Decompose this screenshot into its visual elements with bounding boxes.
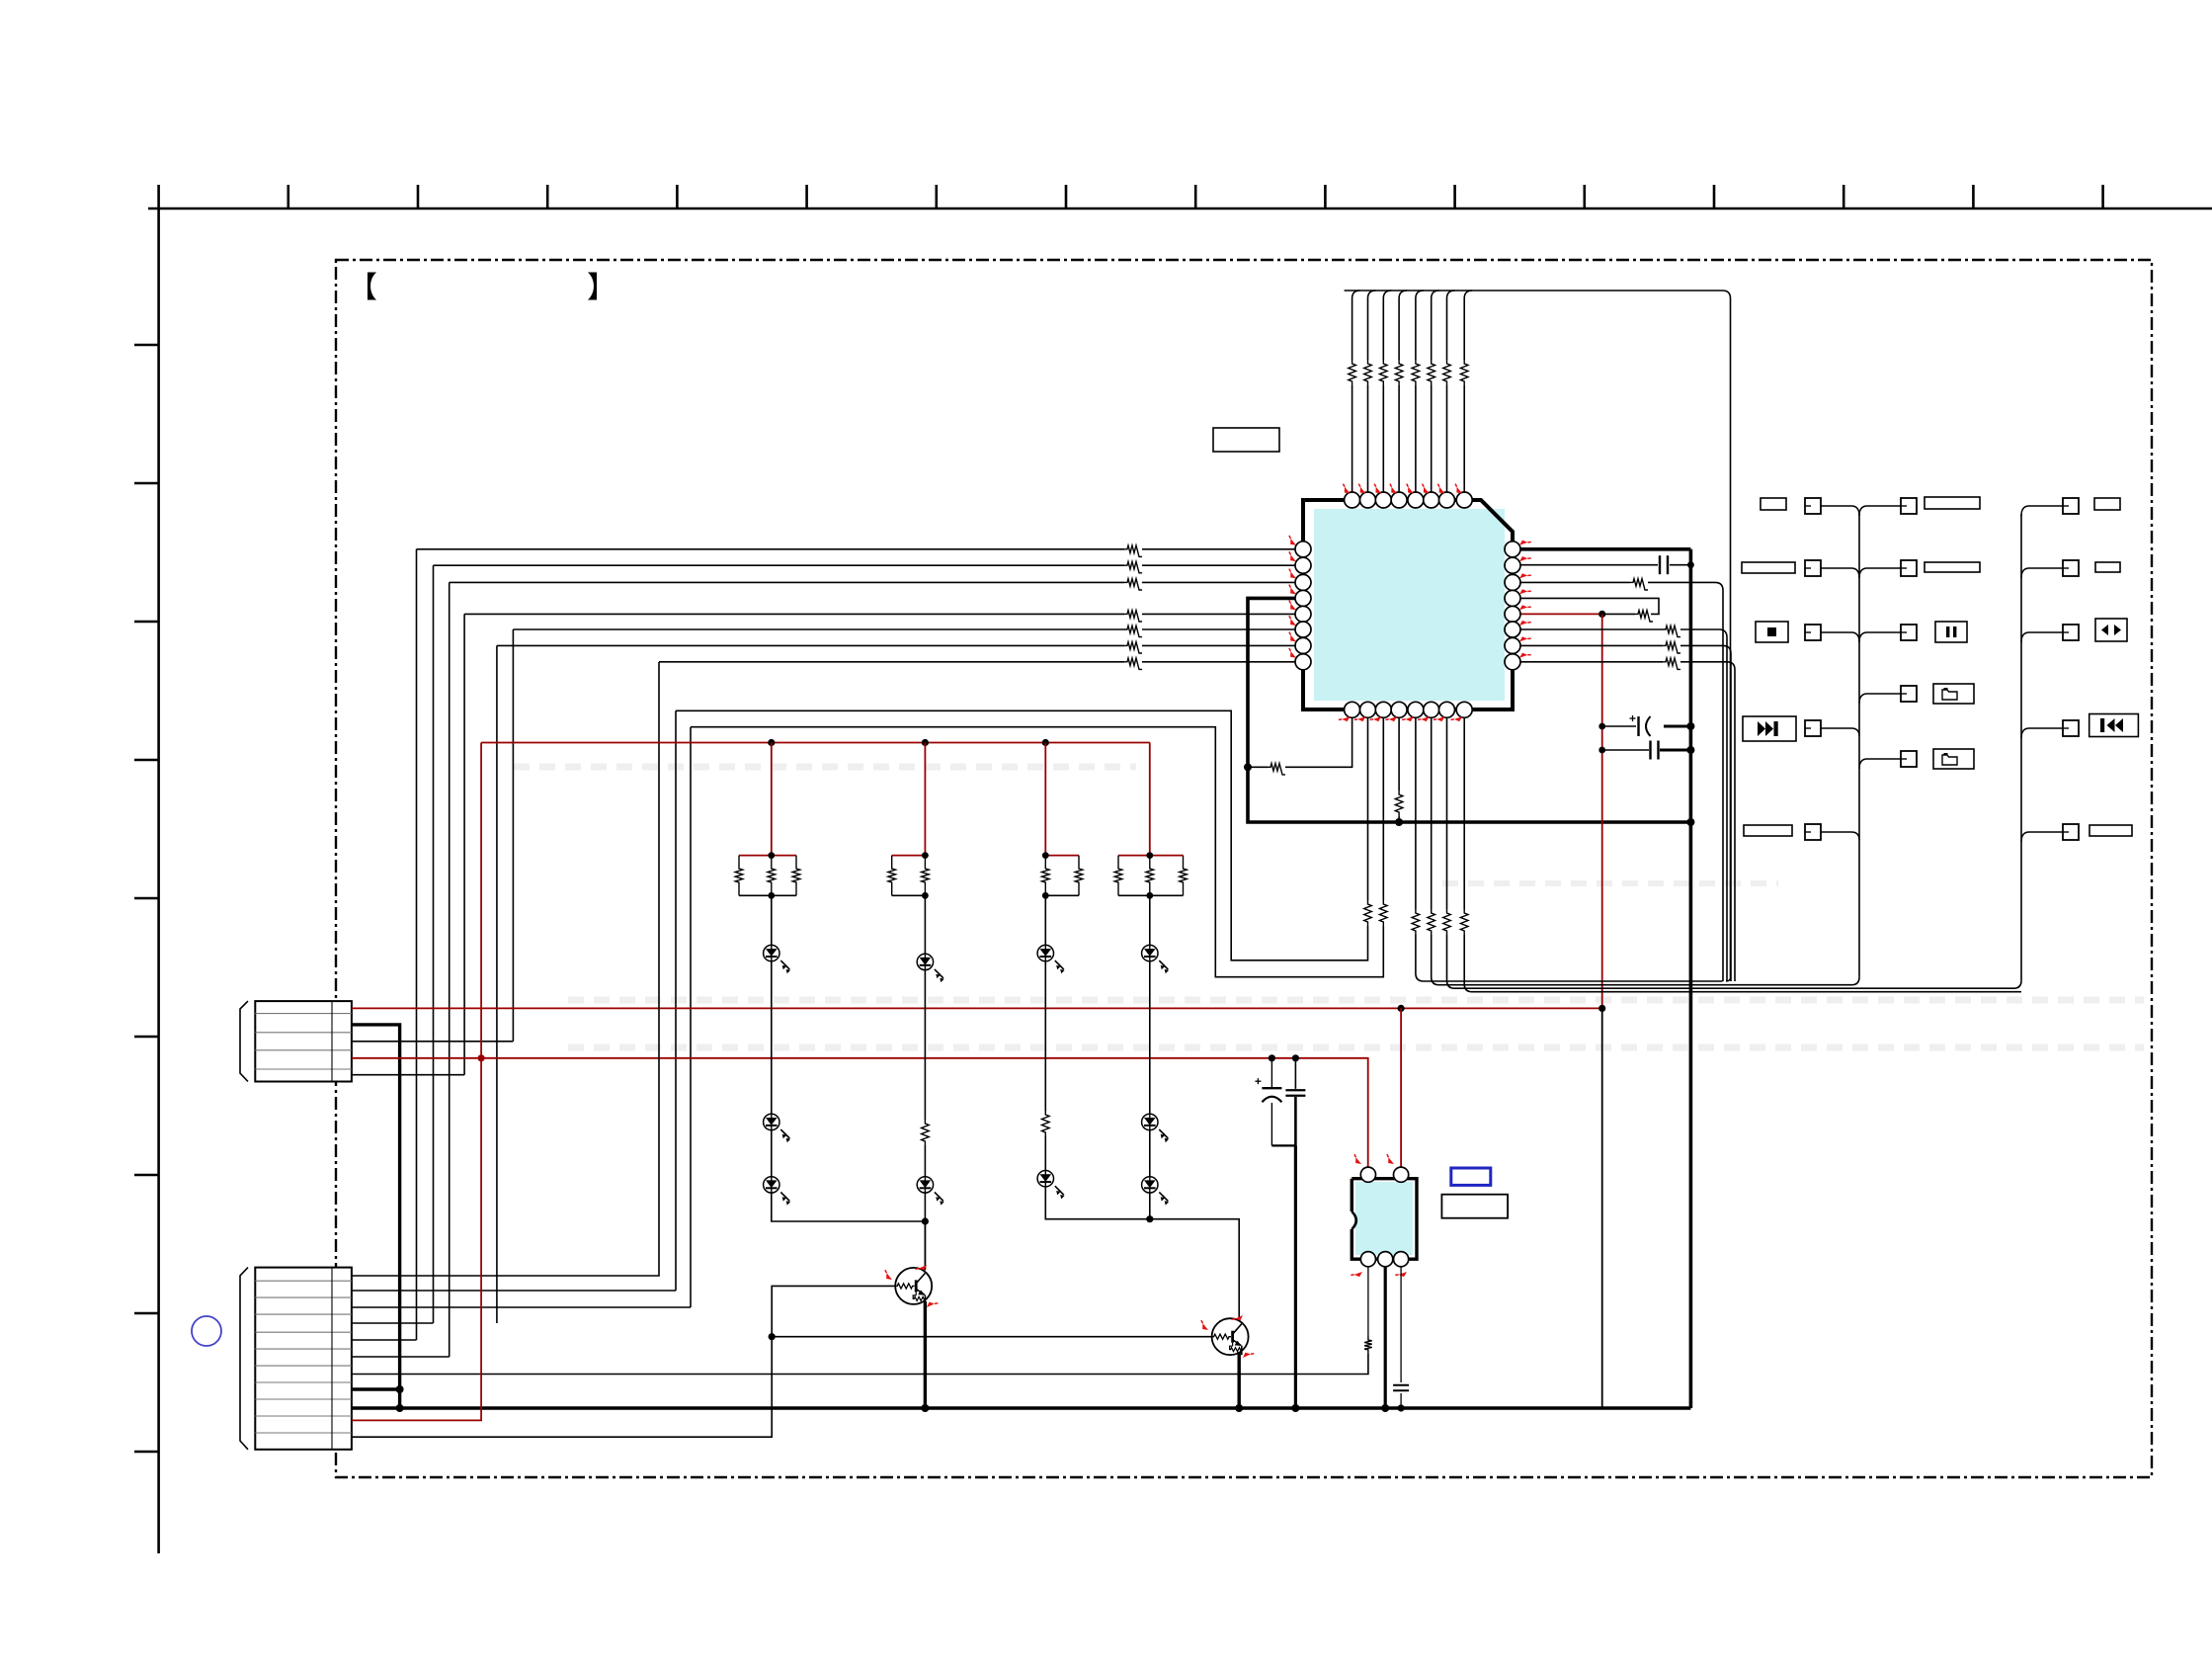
testpoint arrow B4 xyxy=(1385,713,1398,725)
pin B3 xyxy=(1375,702,1391,717)
resistor scan line T2 xyxy=(1364,360,1372,385)
connector CN2 bracket xyxy=(240,1268,248,1450)
junction C right xyxy=(1686,722,1694,730)
resistor B4 xyxy=(1395,791,1403,816)
wire IC pin T5 riser xyxy=(1416,291,1424,492)
junction R2 line xyxy=(1687,561,1694,568)
pin L2 xyxy=(1295,557,1311,573)
wire thick Q1 emitter xyxy=(924,1301,927,1408)
resistor R6 keyline xyxy=(1663,626,1680,636)
pin T6 xyxy=(1424,492,1439,508)
resistor scan line T6 xyxy=(1428,360,1435,385)
ref circle xyxy=(192,1316,221,1346)
pin B4 xyxy=(1391,702,1407,717)
wire IC pin R4 loop xyxy=(1520,598,1659,614)
wire IC pin T4 riser xyxy=(1399,291,1407,492)
wire thick U2 pB2 xyxy=(1384,1267,1387,1408)
testpoint arrow T1 xyxy=(1340,484,1352,496)
wire top pin bus horizontal xyxy=(1345,291,1731,977)
wire row to IC pin L3 xyxy=(450,581,1124,583)
switch S10 xyxy=(2063,625,2079,640)
pin R8 xyxy=(1505,654,1520,670)
testpoint arrow L8 xyxy=(1285,648,1298,660)
wire CN2 p6 xyxy=(352,1356,450,1358)
icon key folder-up xyxy=(1933,684,1974,704)
board outline dash-dot frame xyxy=(336,260,2152,1477)
wire CN2 p7 rail xyxy=(352,1354,1368,1375)
LED D4 xyxy=(1142,945,1158,960)
wire U2 pB3 xyxy=(1400,1267,1402,1382)
resistor R3 keyline xyxy=(1630,579,1648,590)
junction rail C / cap1 xyxy=(1269,1054,1275,1061)
testpoint arrow R1 xyxy=(1518,537,1531,548)
resistor scan line T1 xyxy=(1349,360,1356,385)
wire red CN2 p10 xyxy=(352,1058,481,1421)
junction Q1 emitter/ground xyxy=(921,1404,929,1412)
wire IC pin T6 riser xyxy=(1432,291,1439,492)
wire IC pin T3 riser xyxy=(1383,291,1391,492)
testpoint arrow T8 xyxy=(1451,484,1464,496)
wire red IC pin R5 xyxy=(1520,613,1602,615)
pin R6 xyxy=(1505,622,1520,637)
wire CN2 p11 base line xyxy=(352,1337,772,1438)
resistor key-line L3 xyxy=(1124,579,1142,590)
testpoint arrow T6 xyxy=(1419,484,1432,496)
junction U2 pB3 ground xyxy=(1398,1404,1405,1411)
pin B1 xyxy=(1345,702,1360,717)
wire S13 into bus xyxy=(1821,831,1851,833)
junction rail A xyxy=(1042,739,1049,746)
wire red rail C from CN1 xyxy=(352,1058,1368,1167)
wire LED col1 xyxy=(772,895,926,1221)
testpoint arrow B3 xyxy=(1370,713,1383,725)
pin T5 xyxy=(1408,492,1424,508)
testpoint arrow B1 xyxy=(1339,713,1352,725)
wire row to IC pin L1 xyxy=(417,548,1125,550)
wire row to IC pin L2 xyxy=(434,564,1125,566)
wire S11 into bus xyxy=(1821,727,1851,729)
resistor key-line L8 xyxy=(1124,658,1142,669)
icon key pause xyxy=(1935,622,1967,642)
wire CN2 p3 xyxy=(352,1306,691,1308)
wire bus to S7b xyxy=(1859,759,1901,769)
junction col1+col2 xyxy=(922,1217,929,1224)
wire IC pin R6 keyline xyxy=(1520,628,1663,630)
pin R4 xyxy=(1505,590,1520,606)
pin R1 xyxy=(1505,542,1520,557)
switch S14 xyxy=(2063,824,2079,840)
label key row2 left xyxy=(1742,562,1795,573)
wire IC pin T7 riser xyxy=(1447,291,1455,492)
wire red vertical from R5 xyxy=(1601,614,1603,1008)
wire CN2 p4 xyxy=(352,1322,434,1324)
junction thick rail / R trace xyxy=(1395,818,1403,826)
wire Q1 collector xyxy=(924,1221,926,1271)
capacitor on R2 line xyxy=(1659,555,1661,574)
wire U2 pB1 xyxy=(1367,1267,1369,1336)
testpoint arrow T3 xyxy=(1370,484,1383,496)
pin T4 xyxy=(1391,492,1407,508)
junction rail B / U2 drop xyxy=(1398,1005,1405,1012)
pin L5 xyxy=(1295,606,1311,622)
testpoint arrow B6 xyxy=(1418,713,1431,725)
wire key bus mid vertical xyxy=(1858,514,1860,977)
wire thick CN1 p2 xyxy=(352,1025,400,1408)
LED D2 xyxy=(917,954,933,969)
resistor key-line L6 xyxy=(1124,626,1142,636)
resistor scan line T3 xyxy=(1380,360,1388,385)
wire CN1 p3 xyxy=(352,1041,514,1043)
testpoint arrow L3 xyxy=(1285,569,1298,581)
icon key prev-track xyxy=(2089,714,2139,737)
LED D5 xyxy=(764,1114,779,1129)
testpoint arrows Q1 xyxy=(916,1262,929,1274)
pin T1 xyxy=(1345,492,1360,508)
resistor B7 xyxy=(1443,909,1451,935)
wire S1 to bus xyxy=(1821,505,1851,507)
wire IC pin B6 keyline xyxy=(1431,717,1433,909)
wire IC pin R7 keyline xyxy=(1520,644,1663,646)
wire red rail B from CN1 xyxy=(352,1007,1602,1009)
pin T7 xyxy=(1439,492,1455,508)
wire IC pin T2 riser xyxy=(1368,291,1376,492)
resistor key-line L2 xyxy=(1124,561,1142,572)
label box U1 xyxy=(1213,428,1279,452)
wire CN2 p1 xyxy=(352,662,659,1276)
label key row1 right xyxy=(2094,498,2120,510)
op IC U1 body xyxy=(1314,509,1505,701)
junction C2 right xyxy=(1686,746,1694,754)
testpoint arrow T7 xyxy=(1434,484,1447,496)
capacitor C4 xyxy=(1294,1058,1296,1089)
junction p8/thick vertical xyxy=(396,1385,404,1393)
pin B7 xyxy=(1439,702,1455,717)
testpoint arrows U2 xyxy=(1351,1154,1363,1166)
testpoint arrow R6 xyxy=(1518,617,1531,628)
wire bus to S14 xyxy=(2021,832,2063,842)
wire Q1 base xyxy=(772,1286,895,1336)
wire Q2 base xyxy=(772,1336,1211,1338)
switch S6 xyxy=(1901,625,1917,640)
switch S3 xyxy=(1805,560,1821,576)
resistor R7 keyline xyxy=(1663,642,1680,653)
switch S7a xyxy=(1901,686,1917,702)
pin L1 xyxy=(1295,542,1311,557)
testpoint arrow L7 xyxy=(1285,632,1298,644)
resistor B3 xyxy=(1380,900,1388,926)
op IC U2 body xyxy=(1355,1182,1413,1255)
testpoint arrow L1 xyxy=(1285,536,1298,547)
wire cap join xyxy=(1271,1144,1295,1146)
wire bus to S12 xyxy=(2021,728,2063,738)
resistor B5 xyxy=(1412,909,1420,935)
wire bus vertical to pin L3 xyxy=(449,582,451,1357)
pin B8 xyxy=(1456,702,1472,717)
LED D1 xyxy=(764,945,779,960)
wire thick right vertical rail xyxy=(1689,549,1693,1408)
pin R3 xyxy=(1505,574,1520,590)
junction rail A xyxy=(768,739,775,746)
icon key left-right xyxy=(2095,619,2127,641)
border ruler top xyxy=(148,185,2212,209)
wire CN1 p5 xyxy=(352,1074,464,1076)
resistor B2 xyxy=(1364,900,1372,926)
junction red R5 xyxy=(1598,611,1605,618)
testpoint arrow B7 xyxy=(1434,713,1446,725)
icon key folder-down xyxy=(1933,749,1974,769)
resistor B6 xyxy=(1428,909,1435,935)
transistor Q1 xyxy=(895,1268,932,1304)
pin L6 xyxy=(1295,622,1311,637)
erased label band 4 xyxy=(1442,880,1778,886)
pin U2 T2 xyxy=(1394,1167,1409,1182)
wire IC pin B5 keyline xyxy=(1415,717,1417,909)
testpoint arrow L6 xyxy=(1285,616,1298,627)
wire LED col4 xyxy=(1150,895,1239,1319)
capacitor C2 near IC xyxy=(1602,749,1649,751)
wire thick CN2 p8 xyxy=(352,1387,400,1390)
LED D9 xyxy=(917,1177,933,1193)
switch S8 xyxy=(2063,498,2079,514)
wire IC pin R3 keyline xyxy=(1520,581,1630,583)
wire bus vertical to pin L1 xyxy=(416,549,418,1340)
resistor scan line T8 xyxy=(1460,360,1468,385)
pin T8 xyxy=(1456,492,1472,508)
pin B6 xyxy=(1424,702,1439,717)
wire bus to S8 xyxy=(2021,506,2063,516)
pin B5 xyxy=(1408,702,1424,717)
wire row to IC pin L7 xyxy=(497,644,1124,646)
pin U2 B3 xyxy=(1394,1252,1409,1267)
label key row2 right xyxy=(2095,562,2120,572)
resistor col3 xyxy=(1042,1111,1050,1136)
wire IC pin B2 loop xyxy=(1367,717,1369,900)
resistor key-line L1 xyxy=(1124,545,1142,556)
LED D3 xyxy=(1037,945,1053,960)
wire black vertical below rail B xyxy=(1601,1008,1603,1408)
wire IC pin R8 keyline xyxy=(1520,661,1663,663)
wire bus to S7a xyxy=(1859,694,1901,704)
resistor R8 keyline xyxy=(1663,658,1680,669)
resistor key-line L5 xyxy=(1124,611,1142,622)
junction rail B / R5 vertical xyxy=(1598,1005,1605,1012)
wire thick IC pin R1 to rail xyxy=(1520,547,1690,551)
wire IC pin B3 loop xyxy=(1382,717,1384,900)
junction thick rail end xyxy=(1686,818,1694,826)
wire CN2 p2 xyxy=(352,1290,676,1292)
wire IC pin R2 cap line xyxy=(1520,564,1658,566)
transistor Q2 xyxy=(1212,1318,1249,1355)
border ruler left xyxy=(134,209,159,1553)
pin T2 xyxy=(1360,492,1376,508)
testpoint arrow R8 xyxy=(1518,649,1531,661)
resistor col2 xyxy=(922,1120,930,1145)
svg-text:【: 【 xyxy=(348,272,377,304)
resistor network group 1 xyxy=(739,855,796,857)
erased label band 1 xyxy=(514,764,1136,771)
connector CN1 bracket xyxy=(240,1001,248,1081)
wire bus to S9 xyxy=(2021,568,2063,578)
junction base split xyxy=(769,1333,776,1340)
wire red drop LED col3 xyxy=(1044,743,1046,856)
switch S7b xyxy=(1901,751,1917,767)
wire red riser top to rail A xyxy=(480,743,482,1058)
switch S2 xyxy=(1901,498,1917,514)
wire bus vertical to pin L5 xyxy=(463,614,465,1074)
testpoint arrow R3 xyxy=(1518,570,1531,582)
LED D6 xyxy=(1142,1114,1158,1129)
switch S1 xyxy=(1805,498,1821,514)
wire IC pin B4 xyxy=(1398,717,1400,791)
pin R2 xyxy=(1505,557,1520,573)
junction C2 left xyxy=(1598,747,1605,754)
pin R5 xyxy=(1505,606,1520,622)
wire row to IC pin L5 xyxy=(464,613,1124,615)
pin R7 xyxy=(1505,637,1520,653)
pin U2 T1 xyxy=(1360,1167,1375,1182)
wire red U2 top pin drop xyxy=(1400,1008,1402,1167)
switch S13 xyxy=(1805,824,1821,840)
wire IC pin T8 riser xyxy=(1464,291,1472,492)
icon key stop xyxy=(1756,622,1788,642)
testpoint arrow B2 xyxy=(1354,713,1367,725)
pin L4 xyxy=(1295,590,1311,606)
wire S3 to bus xyxy=(1821,567,1851,569)
junction B1/thick xyxy=(1244,763,1252,771)
wire bus to S10 xyxy=(2021,632,2063,642)
label key row2 mid xyxy=(1925,562,1980,572)
wire thick ground rail xyxy=(352,1406,1691,1410)
connector CN1 body xyxy=(255,1001,352,1081)
wire IC pin T1 riser xyxy=(1352,291,1360,492)
pin U2 B1 xyxy=(1360,1252,1375,1267)
capacitor electrolytic C3 xyxy=(1270,1058,1272,1088)
label box U2 xyxy=(1441,1195,1508,1218)
testpoint arrow B5 xyxy=(1402,713,1415,725)
resistor R4-R5 xyxy=(1635,611,1653,622)
erased label band 3 xyxy=(568,1044,2144,1051)
wire LED col3 xyxy=(1045,895,1150,1218)
testpoint arrows Q2 xyxy=(1232,1312,1245,1324)
wire red drop LED col1 xyxy=(771,743,773,856)
resistor key-line L7 xyxy=(1124,642,1142,653)
switch S9 xyxy=(2063,560,2079,576)
junction rail A xyxy=(922,739,929,746)
wire thick IC pin L4 trace xyxy=(1248,598,1690,822)
switch S12 xyxy=(2063,720,2079,736)
label key row1 mid xyxy=(1925,497,1980,509)
wire bus vertical to pin L7 xyxy=(496,645,498,1323)
switch S5 xyxy=(1805,625,1821,640)
connector CN2 body xyxy=(255,1268,352,1450)
resistor network group 2 xyxy=(892,855,926,857)
testpoint arrow R2 xyxy=(1518,553,1531,565)
junction U2 pB2 ground xyxy=(1381,1404,1389,1412)
junction ground/CN1 drop xyxy=(396,1404,404,1412)
pin L3 xyxy=(1295,574,1311,590)
junction rail C / red riser xyxy=(478,1054,485,1061)
wire IC pin B1 trace xyxy=(1285,717,1352,767)
svg-text:】: 】 xyxy=(587,272,616,304)
wire bus vertical to pin L6 xyxy=(512,629,514,1042)
testpoint arrow L4 xyxy=(1285,585,1298,597)
junction col4 xyxy=(1146,1215,1153,1222)
LED D10 xyxy=(1037,1171,1053,1187)
wire red rail A xyxy=(481,742,1150,744)
resistor network group 4 xyxy=(1118,855,1184,857)
resistor scan line T4 xyxy=(1395,360,1403,385)
wire row to IC pin L6 xyxy=(513,628,1124,630)
resistor U2 B1 xyxy=(1364,1336,1372,1354)
pin L8 xyxy=(1295,654,1311,670)
resistor B8 xyxy=(1460,909,1468,935)
wire IC pin B7 keyline xyxy=(1446,717,1448,909)
wire S5 to bus xyxy=(1821,631,1851,633)
label key row1 left xyxy=(1761,498,1786,510)
testpoint arrow T2 xyxy=(1355,484,1368,496)
pin L7 xyxy=(1295,637,1311,653)
testpoint arrow R4 xyxy=(1518,586,1531,598)
icon key next-track xyxy=(1743,716,1796,741)
resistor scan line T7 xyxy=(1443,360,1451,385)
label key row7 right xyxy=(2089,825,2132,836)
wire key bus right vertical xyxy=(2020,514,2022,980)
wire red drop LED col2 xyxy=(924,743,926,856)
testpoint arrow L2 xyxy=(1285,551,1298,563)
wire row to IC pin L8 xyxy=(659,661,1124,663)
testpoint arrow B8 xyxy=(1450,713,1463,725)
junction C left xyxy=(1598,723,1605,730)
pin B2 xyxy=(1360,702,1376,717)
wire thick Q2 emitter xyxy=(1237,1352,1240,1408)
wire IC pin B8 keyline xyxy=(1463,717,1465,909)
LED D11 xyxy=(1142,1177,1158,1193)
capacitor electrolytic C near IC xyxy=(1602,725,1636,727)
erased label band 2 xyxy=(568,997,2144,1004)
testpoint arrow R7 xyxy=(1518,633,1531,645)
LED D8 xyxy=(764,1177,779,1193)
label box blue U2 xyxy=(1451,1168,1491,1185)
resistor scan line T5 xyxy=(1412,360,1420,385)
resistor network group 3 xyxy=(1045,855,1079,857)
wire CN2 p5 xyxy=(352,1339,417,1341)
testpoint arrow L5 xyxy=(1285,601,1298,613)
switch S4 xyxy=(1901,560,1917,576)
testpoint arrow T5 xyxy=(1403,484,1416,496)
resistor B1 xyxy=(1268,764,1285,775)
label key row7 left xyxy=(1744,825,1792,836)
wire bus vertical to pin L2 xyxy=(433,565,435,1323)
switch S11 xyxy=(1805,720,1821,736)
testpoint arrow T4 xyxy=(1386,484,1399,496)
junction caps/ground xyxy=(1291,1404,1299,1412)
wire LED col2 xyxy=(924,895,926,1268)
wire red drop LED col4 xyxy=(1149,743,1151,856)
pin U2 B2 xyxy=(1378,1252,1393,1267)
junction Q2 emitter/ground xyxy=(1235,1404,1243,1412)
testpoint arrow R5 xyxy=(1518,602,1531,614)
junction rail C / cap2 xyxy=(1292,1054,1299,1061)
pin T3 xyxy=(1375,492,1391,508)
